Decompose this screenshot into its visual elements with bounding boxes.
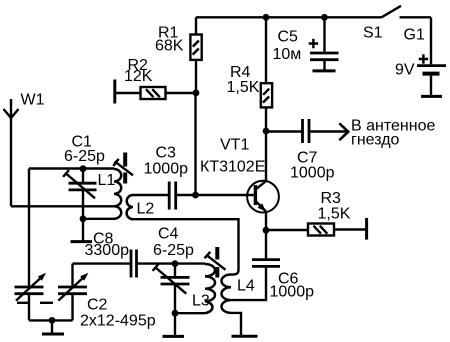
wire junction to L3 top <box>175 262 205 264</box>
svg-text:гнездо: гнездо <box>351 131 400 148</box>
wire C8 row <box>73 262 130 264</box>
ground under L4 <box>232 335 258 338</box>
wire left rail top corner to C2 <box>28 169 30 286</box>
resistor R2 <box>115 80 196 104</box>
wire junction to L3 bottom <box>175 312 205 314</box>
node C1 bottom junction <box>80 215 87 222</box>
resistor R4 <box>261 83 272 131</box>
node C4 bottom junction <box>172 310 179 317</box>
capacitor C6 <box>231 230 280 300</box>
capacitor C4 (trimmer) <box>153 264 190 314</box>
svg-text:1000p: 1000p <box>270 283 315 300</box>
node C2 ground junction <box>49 317 56 324</box>
core of L1 (adjustable) <box>113 153 133 184</box>
resistor R3 <box>266 218 367 240</box>
svg-text:68K: 68K <box>155 38 184 55</box>
inductor L3 <box>205 264 215 313</box>
svg-text:G1: G1 <box>404 27 425 44</box>
wire L4 bottom to ground <box>231 313 241 336</box>
capacitor C1 (trimmer) <box>63 169 96 219</box>
inductor L2 <box>127 195 133 219</box>
node emitter junction <box>263 227 270 234</box>
svg-text:6-25p: 6-25p <box>64 148 105 165</box>
capacitor C2 dual gang variable <box>15 264 89 321</box>
svg-text:1000p: 1000p <box>144 161 189 178</box>
ground under C4/L3 <box>163 313 185 336</box>
switch S1 <box>382 6 432 17</box>
wire L1 bottom to junction <box>83 218 114 220</box>
ground under C1 <box>71 219 93 242</box>
node C1 top junction <box>80 165 87 172</box>
ground under C2 <box>42 320 64 334</box>
wire collector branch from rail <box>265 17 267 83</box>
svg-text:C2: C2 <box>87 297 108 314</box>
wire top power rail <box>196 16 382 18</box>
svg-text:10м: 10м <box>273 46 302 63</box>
svg-text:L1: L1 <box>98 172 116 189</box>
wire base junction to transistor base <box>196 194 254 196</box>
svg-text:6-25p: 6-25p <box>153 242 194 259</box>
svg-text:VT1: VT1 <box>220 136 249 153</box>
wire junction to collector <box>265 131 267 181</box>
svg-text:1,5K: 1,5K <box>318 205 351 222</box>
wire tank top <box>29 167 114 169</box>
svg-text:1000p: 1000p <box>290 164 335 181</box>
inductor L1 <box>114 169 121 219</box>
svg-text:3300p: 3300p <box>85 242 130 259</box>
node R1/R2 junction <box>193 89 200 96</box>
core of L3 (adjustable) <box>205 247 226 278</box>
node rail/collector branch <box>263 14 270 21</box>
wire antenna horizontal to L1 tap <box>11 205 114 207</box>
battery G1 <box>417 17 446 96</box>
capacitor C7 <box>266 119 346 143</box>
capacitor C8 <box>131 250 175 278</box>
wire bias divider vertical <box>194 93 196 195</box>
capacitor C5 (electrolytic) <box>310 17 339 71</box>
svg-text:КТ3102Е: КТ3102Е <box>200 159 265 176</box>
plus sign G1 <box>419 54 428 63</box>
plus sign C5 <box>309 39 318 48</box>
node rail/C5 branch <box>321 14 328 21</box>
inductor L4 <box>221 275 231 313</box>
wire emitter down <box>265 212 267 230</box>
svg-text:S1: S1 <box>363 25 383 42</box>
resistor R1 <box>190 17 201 93</box>
svg-text:2x12-495p: 2x12-495p <box>80 313 156 330</box>
svg-text:9V: 9V <box>395 62 415 79</box>
antenna W1 <box>4 99 19 206</box>
capacitor C3 <box>169 182 195 210</box>
node base junction <box>192 192 199 199</box>
svg-text:L3: L3 <box>192 293 210 310</box>
svg-text:L2: L2 <box>137 201 155 218</box>
transistor VT1 <box>247 181 279 213</box>
svg-text:1,5K: 1,5K <box>227 79 260 96</box>
arrow to antenna socket <box>339 123 348 140</box>
svg-text:L4: L4 <box>237 278 255 295</box>
node C4 top junction <box>172 260 179 267</box>
svg-text:C5: C5 <box>278 29 299 46</box>
wire L2 bottom to L4 top <box>133 219 239 274</box>
svg-text:W1: W1 <box>21 92 45 109</box>
svg-text:12K: 12K <box>124 68 153 85</box>
node R4/C7 junction <box>263 128 270 135</box>
svg-text:C3: C3 <box>156 145 177 162</box>
wire L2 top to C3 <box>133 194 168 196</box>
svg-text:C4: C4 <box>158 225 179 242</box>
